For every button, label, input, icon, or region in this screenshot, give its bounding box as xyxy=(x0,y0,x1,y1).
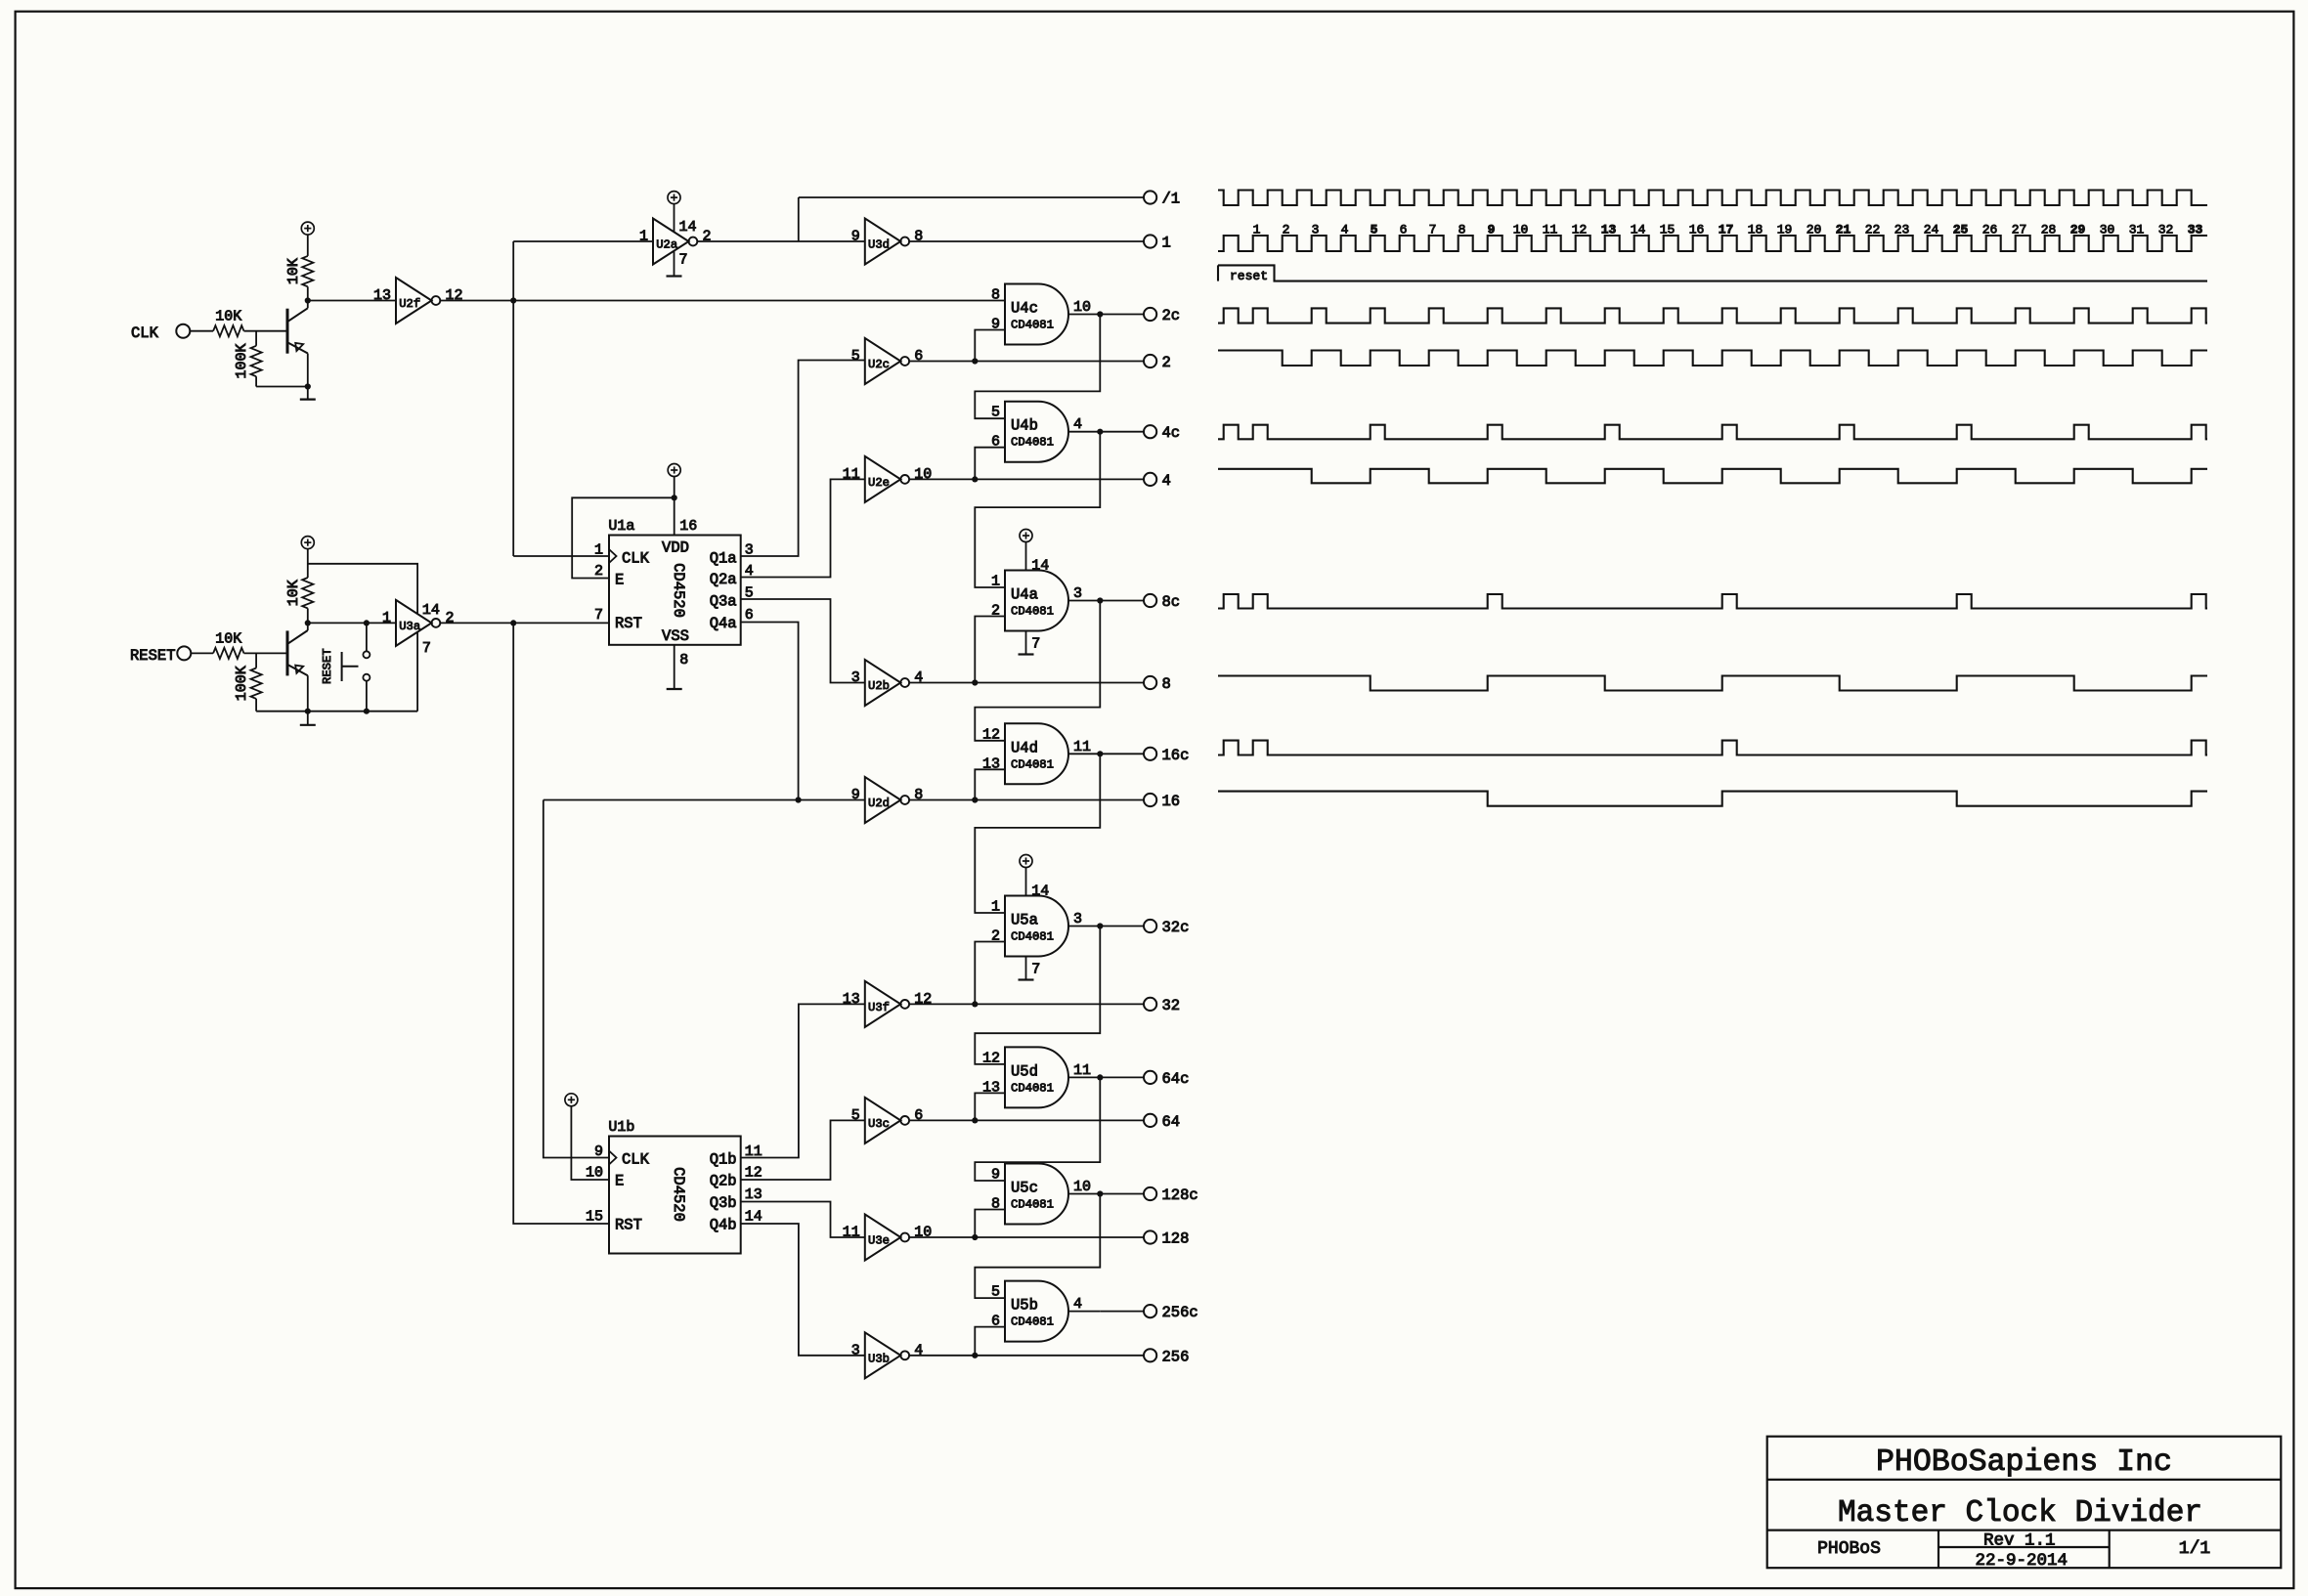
svg-text:U1b: U1b xyxy=(608,1119,634,1136)
svg-text:1: 1 xyxy=(1253,223,1261,237)
svg-text:U3c: U3c xyxy=(868,1117,890,1131)
svg-text:U5a: U5a xyxy=(1011,912,1038,929)
wire clock bus down to U1a CLK xyxy=(512,301,514,557)
svg-text:28: 28 xyxy=(2041,223,2057,237)
svg-text:RST: RST xyxy=(615,1217,642,1234)
svg-text:PHOBoS: PHOBoS xyxy=(1817,1539,1881,1559)
wire U2c output line xyxy=(909,361,1144,363)
waveform 2c xyxy=(1218,308,2207,323)
wire collector to U3a input xyxy=(308,622,396,624)
svg-text:1: 1 xyxy=(1162,235,1171,252)
svg-text:3: 3 xyxy=(1312,223,1320,237)
svg-text:10K: 10K xyxy=(215,309,241,325)
svg-text:Q4b: Q4b xyxy=(710,1217,737,1234)
svg-text:7: 7 xyxy=(1031,636,1040,653)
svg-text:15: 15 xyxy=(1660,223,1676,237)
switch RESET pushbutton xyxy=(366,623,368,651)
svg-text:10: 10 xyxy=(1073,299,1091,316)
svg-text:U2f: U2f xyxy=(399,297,420,311)
svg-text:U4a: U4a xyxy=(1011,586,1038,604)
waveform 8c xyxy=(1218,594,2207,609)
svg-text:U3d: U3d xyxy=(868,238,890,252)
AND gate U5c CD4081 xyxy=(1005,1164,1068,1225)
waveform /1 xyxy=(1218,191,2207,206)
node output terminal 16 xyxy=(1144,794,1156,806)
svg-text:E: E xyxy=(615,572,624,589)
wire Q1b to U3f input xyxy=(741,1004,865,1157)
svg-text:13: 13 xyxy=(373,287,391,304)
svg-text:U2d: U2d xyxy=(868,797,890,810)
node output terminal 4c xyxy=(1144,425,1156,438)
wire emitter to ground rail xyxy=(307,675,309,712)
svg-text:/1: /1 xyxy=(1162,191,1181,208)
svg-text:14: 14 xyxy=(422,602,440,619)
svg-text:10: 10 xyxy=(914,466,932,483)
svg-text:10: 10 xyxy=(586,1165,603,1182)
svg-text:16c: 16c xyxy=(1162,747,1190,764)
node output terminal 256c xyxy=(1144,1305,1156,1317)
resistor 10K (RESET series) xyxy=(213,648,243,659)
AND gate U4c CD4081 xyxy=(1005,284,1068,345)
wire Q3a to U2b input xyxy=(741,599,865,683)
svg-text:8c: 8c xyxy=(1162,593,1181,611)
svg-text:CD4081: CD4081 xyxy=(1011,1081,1054,1095)
wire Q4a to 16 line xyxy=(741,623,799,800)
wire emitter to ground rail xyxy=(307,354,309,387)
wire U5b pin B from 256 line xyxy=(975,1327,1005,1356)
inverter U2f xyxy=(396,278,432,324)
wire U3c output line xyxy=(909,1119,1144,1121)
svg-text:7: 7 xyxy=(1429,223,1437,237)
inverter U2b xyxy=(865,660,901,706)
svg-text:12: 12 xyxy=(914,991,932,1008)
svg-text:7: 7 xyxy=(679,252,688,269)
svg-text:CLK: CLK xyxy=(622,1151,650,1169)
wire xyxy=(191,652,213,654)
wire U3a out to reset bus junction xyxy=(440,622,513,624)
node output terminal /1 xyxy=(1144,191,1156,203)
svg-text:19: 19 xyxy=(1777,223,1793,237)
svg-text:13: 13 xyxy=(1601,223,1617,237)
node junction on 64 line xyxy=(972,1117,978,1123)
wire U2d output line xyxy=(909,799,1144,801)
wire U3f output line xyxy=(909,1003,1144,1005)
svg-text:10K: 10K xyxy=(285,258,302,284)
wire U2a out to U3d in xyxy=(697,240,865,242)
svg-text:Rev 1.1: Rev 1.1 xyxy=(1983,1531,2056,1551)
wire 64c cascade to U5c pin A xyxy=(975,1077,1100,1181)
svg-text:3: 3 xyxy=(1073,585,1082,602)
svg-text:10: 10 xyxy=(1073,1179,1091,1195)
svg-text:4: 4 xyxy=(1073,416,1082,433)
resistor 100K (CLK pulldown) xyxy=(255,331,257,346)
svg-text:100K: 100K xyxy=(234,666,250,701)
ground xyxy=(307,387,309,400)
resistor 10K (RESET pullup) xyxy=(302,578,313,608)
wire U5d output xyxy=(1068,1076,1100,1078)
svg-text:14: 14 xyxy=(1031,884,1049,900)
ground U3a pin 7 xyxy=(416,633,418,712)
svg-text:4: 4 xyxy=(1073,1296,1082,1313)
inverter U3f xyxy=(865,981,901,1027)
wire Q3b to U3e input xyxy=(741,1202,865,1238)
node output terminal 4 xyxy=(1144,473,1156,486)
svg-text:1: 1 xyxy=(382,610,391,626)
inverter U3a xyxy=(396,600,432,646)
waveform 4 xyxy=(1218,469,2207,484)
waveform 4c xyxy=(1218,425,2207,440)
svg-text:Q3a: Q3a xyxy=(710,593,737,611)
svg-text:8: 8 xyxy=(1162,675,1171,693)
wire 16c cascade to U5a pin A xyxy=(975,754,1100,913)
svg-text:CD4081: CD4081 xyxy=(1011,319,1054,332)
svg-text:6: 6 xyxy=(914,1107,923,1124)
node output terminal 256 xyxy=(1144,1349,1156,1361)
svg-text:U2a: U2a xyxy=(656,238,677,252)
node output terminal 128c xyxy=(1144,1187,1156,1200)
node output terminal 8 xyxy=(1144,676,1156,689)
node output terminal 128 xyxy=(1144,1230,1156,1243)
svg-text:22-9-2014: 22-9-2014 xyxy=(1975,1551,2068,1571)
svg-text:Q2a: Q2a xyxy=(710,571,737,588)
node junction on 128 line xyxy=(972,1234,978,1240)
svg-text:RESET: RESET xyxy=(130,647,176,665)
svg-text:4c: 4c xyxy=(1162,424,1181,442)
waveform 16 xyxy=(1218,792,2207,806)
wire U4c output xyxy=(1068,314,1100,316)
power +V U1b E xyxy=(565,1094,578,1106)
power +V U4a pin 14 xyxy=(1020,530,1032,542)
inverter U2d xyxy=(865,777,901,823)
wire 8c cascade to U4d pin A xyxy=(975,601,1100,741)
waveform 16c xyxy=(1218,741,2207,755)
svg-text:CD4081: CD4081 xyxy=(1011,757,1054,771)
svg-text:U3f: U3f xyxy=(868,1001,890,1014)
svg-text:16: 16 xyxy=(1689,223,1705,237)
svg-text:32: 32 xyxy=(2158,223,2174,237)
wire U4b output xyxy=(1068,431,1100,433)
wire U2e output line xyxy=(909,478,1144,480)
wire tap to /1 line xyxy=(798,197,800,241)
node output terminal 2c xyxy=(1144,308,1156,321)
svg-text:5: 5 xyxy=(851,1107,860,1124)
svg-text:13: 13 xyxy=(843,991,860,1008)
svg-text:11: 11 xyxy=(1543,223,1558,237)
wire E tie to VDD xyxy=(672,495,677,500)
wire clock bus to U4c pin 8 xyxy=(513,300,1005,302)
AND gate U5d CD4081 xyxy=(1005,1047,1068,1107)
wire U5c output xyxy=(1068,1193,1100,1195)
svg-text:3: 3 xyxy=(851,1342,860,1359)
svg-text:Q4a: Q4a xyxy=(710,615,737,632)
svg-text:2: 2 xyxy=(594,563,603,580)
svg-text:7: 7 xyxy=(422,640,431,657)
svg-text:Q1a: Q1a xyxy=(710,550,737,568)
inverter U2e xyxy=(865,456,901,502)
resistor 10K (CLK pullup) xyxy=(302,256,313,286)
svg-text:18: 18 xyxy=(1748,223,1764,237)
svg-text:CD4081: CD4081 xyxy=(1011,605,1054,619)
svg-text:2c: 2c xyxy=(1162,307,1181,324)
svg-text:5: 5 xyxy=(1371,223,1378,237)
svg-text:12: 12 xyxy=(1572,223,1588,237)
svg-text:26: 26 xyxy=(1982,223,1998,237)
resistor 10K (CLK series) xyxy=(213,325,243,336)
waveform 8 xyxy=(1218,676,2207,691)
inverter U3d xyxy=(865,219,901,265)
svg-text:21: 21 xyxy=(1836,223,1851,237)
wire 32c cascade to U5d pin A xyxy=(975,927,1100,1064)
power +V U2a pin 14 xyxy=(668,192,680,204)
svg-text:128: 128 xyxy=(1162,1230,1190,1248)
svg-text:11: 11 xyxy=(1073,1062,1091,1079)
svg-text:U5d: U5d xyxy=(1011,1062,1038,1080)
inverter U2c xyxy=(865,338,901,384)
svg-text:64: 64 xyxy=(1162,1113,1181,1131)
svg-text:100K: 100K xyxy=(234,343,250,378)
svg-text:Master Clock Divider: Master Clock Divider xyxy=(1838,1496,2202,1531)
svg-text:9: 9 xyxy=(851,229,860,245)
svg-text:U5b: U5b xyxy=(1011,1297,1038,1315)
svg-text:U4d: U4d xyxy=(1011,739,1038,756)
node collector junction xyxy=(305,620,311,625)
IC U1a CD4520 xyxy=(609,536,741,645)
node collector junction xyxy=(305,297,311,303)
node output terminal 64c xyxy=(1144,1071,1156,1084)
wire U4a pin B from 8 line xyxy=(975,617,1005,683)
wire 4c cascade to U4a pin A xyxy=(975,432,1100,587)
node output terminal 16c xyxy=(1144,748,1156,760)
svg-text:8: 8 xyxy=(914,229,923,245)
svg-text:11: 11 xyxy=(1073,739,1091,755)
wire U5b output xyxy=(1068,1311,1100,1313)
power +V U1a VDD xyxy=(668,464,680,477)
svg-text:E: E xyxy=(615,1173,624,1190)
svg-text:10: 10 xyxy=(914,1225,932,1241)
svg-text:2: 2 xyxy=(703,229,712,245)
svg-text:24: 24 xyxy=(1924,223,1939,237)
node junction on 32 line xyxy=(972,1001,978,1007)
svg-text:12: 12 xyxy=(446,287,463,304)
node output terminal 64 xyxy=(1144,1114,1156,1127)
svg-text:14: 14 xyxy=(1631,223,1646,237)
svg-text:Q2b: Q2b xyxy=(710,1173,737,1190)
svg-text:32c: 32c xyxy=(1162,919,1190,936)
node reset bus junction xyxy=(510,620,516,625)
node output terminal 32c xyxy=(1144,920,1156,932)
svg-text:8: 8 xyxy=(679,652,688,669)
wire U2f out to clock bus junction xyxy=(440,300,513,302)
svg-text:33: 33 xyxy=(2188,223,2203,237)
svg-text:U3b: U3b xyxy=(868,1352,890,1365)
power +V (RESET pullup) xyxy=(301,537,314,549)
svg-text:30: 30 xyxy=(2100,223,2115,237)
wire Q2a to U2e input xyxy=(741,479,865,577)
svg-text:256: 256 xyxy=(1162,1348,1190,1365)
svg-text:U3e: U3e xyxy=(868,1234,890,1248)
wire U4a output xyxy=(1068,600,1100,602)
svg-text:2: 2 xyxy=(446,610,455,626)
svg-text:7: 7 xyxy=(1031,962,1040,978)
node junction on 2 line xyxy=(972,358,978,364)
svg-text:RESET: RESET xyxy=(321,648,334,684)
svg-text:14: 14 xyxy=(1031,558,1049,575)
svg-text:8: 8 xyxy=(1459,223,1466,237)
node junction on 16 line xyxy=(972,797,978,802)
svg-text:RST: RST xyxy=(615,615,642,632)
wire collector to U2f input xyxy=(308,300,396,302)
wire U4d pin B from 16 line xyxy=(975,769,1005,799)
waveform 2 xyxy=(1218,351,2207,367)
svg-text:27: 27 xyxy=(2012,223,2027,237)
svg-text:256c: 256c xyxy=(1162,1304,1198,1321)
resistor 100K (RESET pulldown) xyxy=(255,653,257,668)
inverter U3c xyxy=(865,1098,901,1143)
svg-text:U2b: U2b xyxy=(868,679,890,693)
svg-text:3: 3 xyxy=(1073,911,1082,927)
svg-text:11: 11 xyxy=(843,1225,860,1241)
wire clock bus riser to U2a input xyxy=(512,241,514,301)
svg-text:7: 7 xyxy=(594,607,603,624)
wire xyxy=(244,652,288,654)
svg-text:13: 13 xyxy=(745,1186,762,1203)
node output terminal 2 xyxy=(1144,355,1156,367)
inverter U3b xyxy=(865,1332,901,1378)
node output terminal 1 xyxy=(1144,235,1156,247)
svg-text:PHOBoSapiens Inc: PHOBoSapiens Inc xyxy=(1876,1445,2172,1480)
svg-text:CLK: CLK xyxy=(622,550,650,568)
svg-text:31: 31 xyxy=(2129,223,2145,237)
svg-text:U2c: U2c xyxy=(868,358,890,371)
wire /1 line xyxy=(799,196,1144,198)
svg-text:reset: reset xyxy=(1230,269,1268,283)
svg-text:1: 1 xyxy=(594,542,603,559)
svg-text:U5c: U5c xyxy=(1011,1180,1038,1197)
wire U4c pin B from 2 line xyxy=(975,330,1005,362)
svg-text:14: 14 xyxy=(679,219,697,236)
svg-text:2: 2 xyxy=(1162,354,1171,371)
svg-text:CD4081: CD4081 xyxy=(1011,1316,1054,1329)
ground U5a pin 7 xyxy=(1025,957,1027,980)
svg-text:10: 10 xyxy=(1513,223,1529,237)
svg-text:15: 15 xyxy=(586,1209,603,1226)
ground xyxy=(307,712,309,725)
svg-text:128c: 128c xyxy=(1162,1186,1198,1204)
wire Q4b to U3b input xyxy=(741,1224,865,1356)
wire reset bus down to U1b RST xyxy=(513,623,609,1224)
title block xyxy=(1767,1437,2282,1569)
node junction on 256 line xyxy=(972,1353,978,1359)
svg-text:CD4081: CD4081 xyxy=(1011,930,1054,944)
AND gate U4d CD4081 xyxy=(1005,723,1068,784)
node output terminal 8c xyxy=(1144,594,1156,607)
wire U5a pin B from 32 line xyxy=(975,942,1005,1005)
svg-text:10K: 10K xyxy=(215,630,241,647)
svg-text:4: 4 xyxy=(914,669,923,686)
wire cascade down to U1b CLK xyxy=(544,800,609,1158)
wire U5a output xyxy=(1068,926,1100,927)
svg-text:4: 4 xyxy=(914,1342,923,1359)
svg-text:VSS: VSS xyxy=(662,627,689,645)
svg-text:6: 6 xyxy=(745,607,754,624)
wire xyxy=(190,330,213,332)
svg-text:CLK: CLK xyxy=(131,324,159,342)
AND gate U5b CD4081 xyxy=(1005,1281,1068,1342)
wire ground rail xyxy=(256,711,417,712)
AND gate U5a CD4081 xyxy=(1005,896,1068,957)
svg-text:CD4520: CD4520 xyxy=(670,563,687,618)
svg-text:32: 32 xyxy=(1162,997,1181,1014)
ground U2a pin 7 xyxy=(674,251,675,277)
svg-text:29: 29 xyxy=(2070,223,2086,237)
wire 16 line / U2d input from cascade tee xyxy=(544,799,865,801)
IC U1b CD4520 xyxy=(609,1137,741,1254)
wire 128c cascade to U5b pin A xyxy=(975,1194,1100,1299)
svg-text:9: 9 xyxy=(1488,223,1496,237)
svg-text:9: 9 xyxy=(594,1143,603,1160)
node junction on 4 line xyxy=(972,476,978,482)
svg-text:6: 6 xyxy=(1400,223,1408,237)
transistor Q1 (CLK buffer NPN) xyxy=(286,309,289,354)
waveform reset xyxy=(1218,265,2207,280)
svg-text:17: 17 xyxy=(1719,223,1734,237)
svg-text:16: 16 xyxy=(1162,793,1181,810)
transistor Q2 (RESET buffer NPN) xyxy=(286,630,289,675)
svg-text:U1a: U1a xyxy=(608,518,634,535)
wire U3b output line xyxy=(909,1355,1144,1357)
svg-text:64c: 64c xyxy=(1162,1070,1190,1088)
wire Q1a to U2c input xyxy=(741,361,865,557)
svg-text:6: 6 xyxy=(914,348,923,365)
svg-text:CD4081: CD4081 xyxy=(1011,436,1054,450)
node clock bus junction xyxy=(510,297,516,303)
wire 1 line xyxy=(909,240,1144,242)
svg-text:VDD: VDD xyxy=(662,539,689,557)
wire Q2b to U3c input xyxy=(741,1120,865,1180)
svg-text:3: 3 xyxy=(851,669,860,686)
wire U5d pin B from 64 line xyxy=(975,1093,1005,1120)
svg-text:U3a: U3a xyxy=(399,620,420,633)
AND gate U4a CD4081 xyxy=(1005,571,1068,631)
svg-text:U2e: U2e xyxy=(868,476,890,490)
svg-text:4: 4 xyxy=(1341,223,1349,237)
wire U4d output xyxy=(1068,753,1100,755)
wire power rail to U3a pin 14 xyxy=(308,564,417,614)
pin 16 VDD xyxy=(674,476,675,536)
power +V U5a pin 14 xyxy=(1020,855,1032,868)
svg-text:CD4081: CD4081 xyxy=(1011,1198,1054,1212)
svg-text:2: 2 xyxy=(1283,223,1290,237)
wire U5c pin B from 128 line xyxy=(975,1210,1005,1238)
svg-text:Q1b: Q1b xyxy=(710,1151,737,1169)
svg-text:14: 14 xyxy=(745,1209,762,1226)
wire U4b pin B from 4 line xyxy=(975,448,1005,480)
svg-text:23: 23 xyxy=(1894,223,1910,237)
svg-text:1: 1 xyxy=(639,229,648,245)
svg-text:11: 11 xyxy=(843,466,860,483)
ground U4a pin 7 xyxy=(1025,631,1027,655)
svg-text:10K: 10K xyxy=(285,580,302,606)
svg-text:1/1: 1/1 xyxy=(2179,1539,2210,1559)
inverter U3e xyxy=(865,1215,901,1261)
node output terminal 32 xyxy=(1144,998,1156,1011)
waveform 1 (clock) xyxy=(1218,236,2207,251)
svg-text:CD4520: CD4520 xyxy=(670,1167,687,1222)
svg-text:22: 22 xyxy=(1865,223,1881,237)
svg-text:8: 8 xyxy=(991,287,1000,304)
power +V (CLK pullup) xyxy=(301,222,314,235)
svg-text:Q3b: Q3b xyxy=(710,1194,737,1212)
